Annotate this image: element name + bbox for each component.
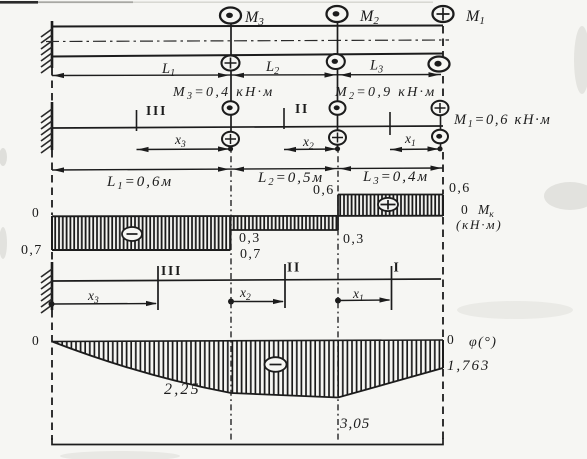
svg-text:0: 0	[447, 332, 454, 347]
svg-text:(кН·м): (кН·м)	[456, 217, 502, 232]
svg-text:L3=0,4м: L3=0,4м	[362, 169, 429, 187]
svg-text:L2: L2	[265, 59, 279, 77]
svg-text:1,763: 1,763	[447, 358, 490, 374]
svg-text:III: III	[161, 263, 182, 278]
svg-text:II: II	[287, 260, 301, 275]
svg-text:L1: L1	[161, 61, 175, 79]
svg-text:3,05: 3,05	[339, 416, 370, 432]
svg-text:I: I	[394, 260, 401, 275]
svg-text:0,3: 0,3	[239, 231, 261, 246]
svg-text:0: 0	[32, 205, 39, 220]
svg-text:III: III	[146, 103, 167, 118]
svg-text:2,25: 2,25	[164, 381, 201, 398]
svg-text:x1: x1	[404, 131, 416, 149]
svg-text:0,7: 0,7	[240, 247, 262, 262]
svg-text:x2: x2	[239, 285, 251, 303]
svg-text:M1: M1	[465, 8, 485, 27]
svg-text:M2: M2	[359, 8, 379, 27]
svg-text:II: II	[295, 101, 309, 116]
svg-text:0,6: 0,6	[449, 181, 471, 196]
svg-text:M2=0,9 кН·м: M2=0,9 кН·м	[334, 85, 437, 102]
svg-text:0,3: 0,3	[343, 232, 365, 247]
svg-text:M3=0,4 кН·м: M3=0,4 кН·м	[172, 85, 275, 102]
svg-text:0: 0	[32, 333, 39, 348]
svg-text:L1=0,6м: L1=0,6м	[106, 174, 173, 192]
svg-text:M1=0,6 кН·м: M1=0,6 кН·м	[453, 112, 551, 130]
svg-text:x1: x1	[352, 286, 364, 304]
svg-text:0: 0	[461, 202, 468, 217]
svg-text:0,6: 0,6	[313, 183, 335, 198]
svg-text:0,7: 0,7	[21, 243, 43, 258]
svg-text:φ(°): φ(°)	[469, 335, 497, 350]
svg-text:M3: M3	[244, 9, 264, 28]
svg-text:x3: x3	[174, 132, 186, 150]
svg-text:L3: L3	[369, 58, 383, 76]
